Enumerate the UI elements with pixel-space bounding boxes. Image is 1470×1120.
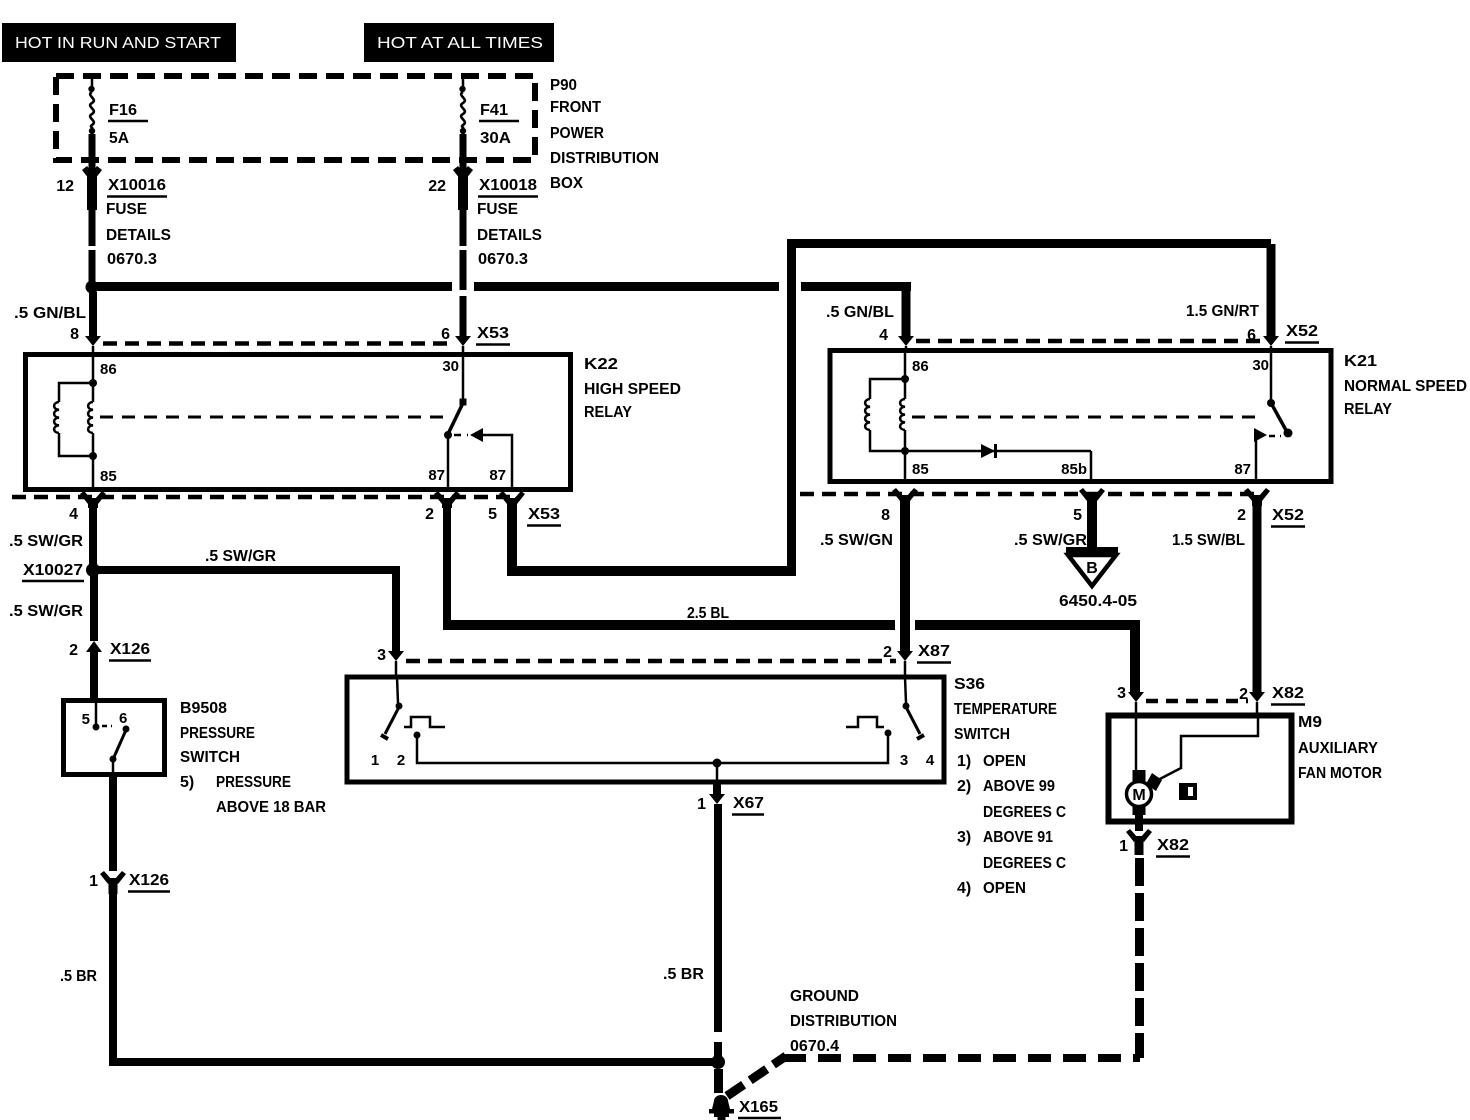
- connector S36 pin 3 (arrow down): [377, 647, 404, 677]
- ground bus wire: [109, 1058, 715, 1066]
- svg-text:FRONT: FRONT: [550, 99, 601, 116]
- svg-text:X82: X82: [1272, 685, 1304, 702]
- svg-text:1: 1: [1119, 838, 1128, 855]
- svg-text:12: 12: [56, 178, 74, 195]
- connector arrow K21 pin 4: [879, 327, 914, 351]
- svg-text:4: 4: [69, 506, 78, 523]
- svg-text:1: 1: [371, 752, 379, 769]
- svg-text:2.5 BL: 2.5 BL: [687, 605, 729, 622]
- svg-text:K22: K22: [584, 356, 618, 373]
- svg-text:6: 6: [119, 710, 127, 727]
- svg-text:85: 85: [100, 468, 117, 485]
- label K22 HIGH SPEED RELAY: [584, 356, 681, 421]
- svg-text:ABOVE 91: ABOVE 91: [983, 829, 1053, 846]
- connector X82 pin 2 (arrow down): [1239, 685, 1305, 716]
- svg-text:FAN MOTOR: FAN MOTOR: [1298, 765, 1382, 782]
- svg-text:X53: X53: [477, 325, 509, 342]
- svg-text:8: 8: [70, 326, 79, 343]
- dashed connector line above S36: [406, 659, 896, 664]
- svg-text:X165: X165: [739, 1099, 778, 1116]
- svg-text:.5 SW/GR: .5 SW/GR: [9, 533, 83, 550]
- svg-text:X87: X87: [918, 643, 950, 660]
- svg-text:X126: X126: [110, 641, 150, 658]
- svg-text:PRESSURE: PRESSURE: [216, 774, 291, 791]
- fuse F16 5A: [88, 74, 148, 163]
- svg-text:X82: X82: [1157, 837, 1189, 854]
- connector X82 pin 1 (female): [1119, 829, 1190, 857]
- K22 contact 87 (first) wire: [447, 436, 450, 490]
- svg-text:5: 5: [488, 506, 497, 523]
- svg-text:DETAILS: DETAILS: [106, 227, 171, 244]
- svg-text:30A: 30A: [480, 130, 511, 147]
- svg-text:DEGREES C: DEGREES C: [983, 855, 1066, 872]
- svg-text:.5 BR: .5 BR: [663, 966, 704, 983]
- svg-text:FUSE: FUSE: [477, 201, 518, 218]
- B9508 dashed gap 5-6: [102, 725, 112, 728]
- K22 pin 86 wire: [92, 355, 95, 383]
- label B9508 PRESSURE SWITCH: [180, 700, 326, 816]
- svg-text:3): 3): [957, 829, 971, 846]
- svg-text:2: 2: [1237, 507, 1246, 524]
- svg-text:87: 87: [428, 467, 445, 484]
- connector X10016 pin 12: [56, 160, 171, 268]
- svg-text:POWER: POWER: [550, 125, 604, 142]
- svg-text:30: 30: [1252, 357, 1269, 374]
- connector K21 pin 5 (female): [1073, 488, 1105, 524]
- svg-text:DEGREES C: DEGREES C: [983, 804, 1066, 821]
- ground junction node: [711, 1055, 725, 1069]
- svg-text:P90: P90: [550, 77, 577, 94]
- svg-text:PRESSURE: PRESSURE: [180, 725, 255, 742]
- svg-text:2: 2: [397, 752, 405, 769]
- wire K21 pin 5 to off-page B: [1087, 506, 1097, 547]
- K21 pin 86 wire: [904, 351, 907, 379]
- B9508 switch arm: [110, 730, 127, 763]
- svg-text:30: 30: [442, 358, 459, 375]
- K21 contact 87 arrow: [1234, 428, 1281, 482]
- svg-text:DISTRIBUTION: DISTRIBUTION: [550, 150, 659, 167]
- svg-text:2: 2: [425, 506, 434, 523]
- svg-text:1.5 GN/RT: 1.5 GN/RT: [1186, 303, 1259, 320]
- svg-text:TEMPERATURE: TEMPERATURE: [954, 701, 1057, 718]
- dashed ground wire horizontal: [783, 1054, 1140, 1062]
- svg-text:0670.3: 0670.3: [107, 251, 157, 268]
- svg-text:87: 87: [1234, 461, 1251, 478]
- auxiliary fan motor M9 box: [1109, 716, 1292, 822]
- svg-text:.5 SW/GR: .5 SW/GR: [9, 603, 83, 620]
- svg-text:.5 SW/GN: .5 SW/GN: [820, 532, 893, 549]
- dashed ground wire from X82 pin 1 down: [1135, 858, 1144, 1058]
- svg-text:SWITCH: SWITCH: [954, 726, 1010, 743]
- svg-text:K21: K21: [1344, 353, 1377, 370]
- K21 pin 85b wire: [1061, 451, 1091, 482]
- svg-text:85b: 85b: [1061, 461, 1087, 478]
- svg-text:1: 1: [89, 873, 98, 890]
- svg-text:8: 8: [881, 507, 890, 524]
- K22 switch arm: [444, 399, 467, 440]
- connector X126 pin 2 (arrow up): [69, 641, 151, 661]
- relay K22 box: [26, 355, 571, 490]
- header banner HOT IN RUN AND START: [2, 23, 236, 62]
- dashed connector line below K21: [800, 492, 1262, 497]
- svg-text:HIGH SPEED: HIGH SPEED: [584, 381, 681, 398]
- svg-text:.5 SW/GR: .5 SW/GR: [1014, 532, 1087, 549]
- wire K22 pin 4 down to X10027: [89, 506, 97, 566]
- connector X126 pin 1 (female): [89, 871, 170, 894]
- svg-text:NORMAL SPEED: NORMAL SPEED: [1344, 378, 1467, 395]
- dashed connector line below K22: [12, 495, 520, 500]
- svg-text:4: 4: [879, 327, 888, 344]
- connector X52 pin 6: [1247, 323, 1319, 351]
- svg-text:HOT AT ALL TIMES: HOT AT ALL TIMES: [377, 35, 543, 52]
- connector X82 pin 3 (arrow down): [1117, 685, 1144, 716]
- svg-text:X126: X126: [129, 872, 169, 889]
- label S36 TEMPERATURE SWITCH + notes: [954, 676, 1066, 897]
- connector X10018 pin 22: [428, 160, 542, 268]
- svg-text:B9508: B9508: [180, 700, 227, 717]
- svg-text:2: 2: [69, 642, 78, 659]
- wire fuse F41 down to X53 pin 6 (crosses main bus, no junction): [460, 210, 467, 336]
- connector K22 pin 4 (female): [69, 491, 106, 523]
- svg-text:1): 1): [957, 753, 971, 770]
- wire X67 down to ground junction: [714, 804, 722, 1032]
- label GROUND DISTRIBUTION 0670.4: [790, 988, 897, 1055]
- B9508 contact 5: [82, 703, 100, 731]
- label K21 NORMAL SPEED RELAY: [1344, 353, 1467, 418]
- svg-text:M: M: [1132, 787, 1145, 804]
- fuse F41 30A: [459, 74, 519, 163]
- svg-text:X10016: X10016: [108, 177, 166, 194]
- svg-text:6: 6: [441, 326, 450, 343]
- connector K21 pin 8 (female): [881, 488, 918, 524]
- svg-text:X53: X53: [528, 506, 560, 523]
- S36 output junction to X67: [713, 759, 722, 795]
- wire X53 pin 5 feed to K21 pin 30 (down, right, up, right): [507, 239, 1276, 576]
- svg-text:S36: S36: [954, 676, 985, 693]
- wire X10027 down to X126 pin 2: [90, 574, 98, 641]
- svg-text:5: 5: [1073, 507, 1082, 524]
- K22 pin 85 wire: [92, 456, 95, 490]
- svg-text:3: 3: [1117, 685, 1126, 702]
- svg-text:87: 87: [489, 467, 506, 484]
- svg-text:DISTRIBUTION: DISTRIBUTION: [790, 1013, 897, 1030]
- K22 second contact 87 arrow: [454, 428, 512, 490]
- svg-text:ABOVE 99: ABOVE 99: [983, 778, 1055, 795]
- svg-text:AUXILIARY: AUXILIARY: [1298, 740, 1378, 757]
- dashed connector line above K22: [103, 341, 453, 346]
- temperature switch S36 box: [347, 677, 944, 782]
- svg-text:SWITCH: SWITCH: [180, 749, 240, 766]
- dashed connector line above M9: [1146, 699, 1248, 704]
- connector X53 pin 6: [441, 325, 510, 355]
- pressure switch B9508 box: [64, 701, 165, 775]
- svg-text:OPEN: OPEN: [983, 880, 1026, 897]
- K21 actuator dashed link: [912, 416, 1258, 419]
- label P90 FRONT POWER DISTRIBUTION BOX: [550, 77, 659, 192]
- svg-text:0670.4: 0670.4: [790, 1038, 839, 1055]
- svg-text:.5 SW/GR: .5 SW/GR: [205, 548, 276, 565]
- wire X126 pin 2 to pressure switch: [90, 652, 98, 700]
- svg-text:2: 2: [883, 644, 892, 661]
- dashed ground wire diagonal: [727, 1056, 786, 1096]
- connector X53 pin 5 (female): [488, 491, 561, 526]
- K22 coil (parallel windings): [54, 379, 97, 460]
- wire .5 BR left down to ground bus: [109, 893, 117, 1063]
- connector X67 pin 1 (arrow down): [697, 794, 764, 815]
- svg-text:0670.3: 0670.3: [478, 251, 528, 268]
- svg-text:.5 GN/BL: .5 GN/BL: [826, 304, 894, 321]
- S36 internal wire pin2 to pin3: [417, 735, 888, 763]
- connector arrow K22 pin 8: [70, 326, 101, 355]
- K21 pin 85 wire: [904, 451, 907, 482]
- dashed connector line above K21: [916, 339, 1261, 344]
- svg-text:6450.4-05: 6450.4-05: [1059, 593, 1137, 610]
- svg-text:3: 3: [377, 647, 386, 664]
- svg-text:RELAY: RELAY: [1344, 401, 1392, 418]
- svg-text:.5 GN/BL: .5 GN/BL: [14, 305, 86, 322]
- svg-text:BOX: BOX: [550, 175, 583, 192]
- svg-text:X67: X67: [733, 795, 764, 812]
- label M9 AUXILIARY FAN MOTOR: [1298, 714, 1382, 782]
- svg-text:85: 85: [912, 461, 929, 478]
- off-page reference B (6450.4-05): [1059, 547, 1137, 610]
- svg-text:86: 86: [912, 358, 929, 375]
- svg-text:22: 22: [428, 178, 446, 195]
- S36 right switch (pins 3,4): [846, 677, 935, 769]
- K21 coil (parallel windings): [865, 375, 909, 455]
- svg-text:X10027: X10027: [23, 562, 83, 579]
- svg-text:B: B: [1086, 560, 1098, 577]
- svg-text:HOT IN RUN AND START: HOT IN RUN AND START: [15, 35, 222, 52]
- wire B9508 to X126 pin 1: [109, 760, 117, 871]
- P90 front power distribution box (dashed): [56, 76, 535, 160]
- svg-text:RELAY: RELAY: [584, 404, 632, 421]
- svg-text:5): 5): [180, 774, 194, 791]
- wire 2.5 BL bus: [443, 506, 1140, 692]
- svg-text:1: 1: [697, 796, 706, 813]
- wire 1.5 SW/BL K21 pin 2 down to X82 pin 2: [1253, 506, 1262, 692]
- svg-text:M9: M9: [1298, 714, 1322, 731]
- K21 switch arm: [1267, 399, 1293, 438]
- svg-text:DETAILS: DETAILS: [477, 227, 542, 244]
- svg-text:.5 BR: .5 BR: [60, 968, 97, 985]
- connector X53 pin 2 (female): [425, 491, 460, 523]
- wire junction down to K22 pin 8: [89, 292, 97, 336]
- M9 internal wire pin 2 to brush: [1156, 716, 1258, 781]
- S36 left switch (pins 1,2,3): [371, 677, 445, 769]
- K22 actuator dashed link: [100, 416, 446, 419]
- svg-text:ABOVE 18 BAR: ABOVE 18 BAR: [216, 799, 326, 816]
- svg-text:X52: X52: [1286, 323, 1318, 340]
- junction node at F16 feed / main bus: [86, 281, 99, 294]
- svg-text:FUSE: FUSE: [106, 201, 147, 218]
- svg-text:5: 5: [82, 711, 90, 728]
- svg-text:1.5 SW/BL: 1.5 SW/BL: [1172, 532, 1245, 549]
- connector X52 pin 2 (female): [1237, 488, 1305, 527]
- svg-text:OPEN: OPEN: [983, 753, 1026, 770]
- B9508 contact 6: [119, 710, 130, 733]
- K21 pin 30 wire: [1252, 351, 1271, 400]
- svg-text:5A: 5A: [109, 130, 129, 147]
- header banner HOT AT ALL TIMES: [364, 23, 554, 62]
- M9 motor symbol: [1127, 716, 1163, 815]
- svg-text:X10018: X10018: [479, 177, 537, 194]
- K21 diode to 85b: [905, 444, 1091, 458]
- wire M9 motor to X82 pin 1: [1135, 814, 1143, 831]
- wire fuse F16 to junction: [89, 210, 96, 284]
- K22 pin 30 wire: [462, 355, 465, 400]
- wire K21 pin 8 down to X87 pin 2: [900, 506, 910, 651]
- svg-text:F16: F16: [109, 102, 137, 119]
- wire X10027 right then down to S36 pin 3: [93, 566, 400, 652]
- svg-text:86: 86: [100, 361, 117, 378]
- svg-text:4: 4: [926, 752, 935, 769]
- ground X165: [709, 1069, 781, 1120]
- svg-text:X52: X52: [1272, 507, 1304, 524]
- svg-text:F41: F41: [480, 102, 508, 119]
- relay K21 box: [830, 351, 1331, 482]
- svg-text:3: 3: [900, 752, 908, 769]
- svg-text:4): 4): [957, 880, 971, 897]
- connector X87 pin 2 (arrow down): [883, 643, 951, 677]
- junction node X10027: [22, 562, 100, 581]
- svg-text:GROUND: GROUND: [790, 988, 859, 1005]
- M9 internal block: [1179, 783, 1197, 800]
- main bus wire .5 GN/BL (y=287): [92, 282, 911, 336]
- svg-text:2): 2): [957, 778, 971, 795]
